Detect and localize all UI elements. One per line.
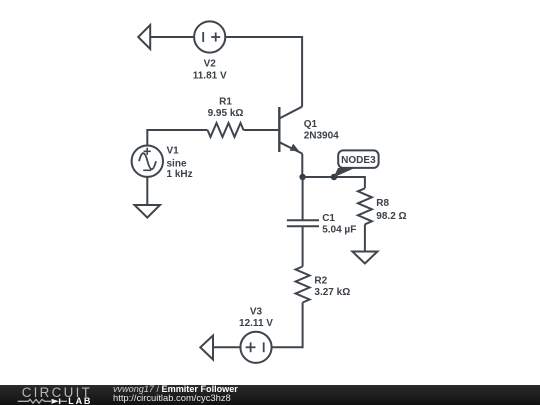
NODE3 flag box (338, 150, 378, 168)
resistor R8 (358, 188, 372, 224)
svg-text:12.11 V: 12.11 V (239, 318, 273, 329)
ground flag (left-pointing) at V3 left terminal (200, 336, 213, 360)
svg-text:R8: R8 (376, 198, 389, 209)
svg-text:NODE3: NODE3 (341, 155, 376, 166)
wire from V3 to left flag (213, 346, 240, 348)
voltage source V3 (240, 332, 271, 363)
svg-text:V2: V2 (204, 59, 217, 70)
node junction dot at emitter branch (299, 174, 305, 180)
ground below V1 (135, 205, 161, 218)
wire node to R8 branch (303, 177, 365, 188)
svg-text:R2: R2 (314, 276, 327, 287)
voltage source V2 (194, 21, 225, 52)
svg-text:5.04 µF: 5.04 µF (322, 225, 356, 236)
wire from R8 to ground (364, 224, 366, 251)
wire from Q1 emitter down to node (301, 154, 303, 177)
voltage source V1 (132, 146, 163, 177)
svg-text:98.2 Ω: 98.2 Ω (376, 211, 406, 222)
transistor Q1 2N3904 (279, 107, 302, 154)
svg-text:2N3904: 2N3904 (304, 131, 339, 142)
wire from left flag to V2 (150, 36, 194, 38)
NODE3 flag pointer (334, 168, 356, 178)
node dot under NODE3 flag (331, 174, 337, 180)
wire from C1 to R2 (302, 226, 304, 266)
CircuitLab logo (0, 385, 110, 405)
svg-text:3.27 kΩ: 3.27 kΩ (314, 287, 350, 298)
wire from V2 to collector rail corner (225, 37, 302, 107)
label V1 sine 1 kHz (167, 146, 193, 181)
label R1 9.95 kOhm (208, 97, 244, 120)
svg-text:R1: R1 (219, 97, 232, 108)
svg-text:sine: sine (167, 159, 187, 170)
label R2 3.27 kOhm (314, 276, 350, 299)
ground below R8 (352, 252, 377, 264)
wire from R2 down and left to V3 (272, 303, 303, 348)
capacitor C1 (287, 220, 319, 226)
svg-text:9.95 kΩ: 9.95 kΩ (208, 108, 244, 119)
svg-text:1 kHz: 1 kHz (167, 169, 193, 180)
footer credit text (113, 385, 238, 403)
label Q1 2N3904 (304, 119, 339, 142)
svg-text:V3: V3 (250, 307, 263, 318)
svg-text:C1: C1 (322, 213, 335, 224)
wire from V1 top up and right to R1 (147, 130, 207, 146)
wire from node down to C1 (302, 177, 304, 220)
svg-text:11.81 V: 11.81 V (193, 71, 227, 82)
label C1 5.04 uF (322, 213, 356, 236)
label R8 98.2 Ohm (376, 198, 406, 222)
resistor R2 (296, 267, 310, 303)
wire from V1 bottom to ground (146, 177, 148, 205)
svg-text:V1: V1 (167, 146, 180, 157)
svg-text:Q1: Q1 (304, 119, 318, 130)
footer bar (0, 385, 540, 405)
resistor R1 (208, 123, 244, 137)
label V3 12.11 V (239, 307, 273, 330)
label V2 11.81 V (193, 59, 227, 82)
wire from R1 to Q1 base (244, 129, 280, 131)
svg-text:LAB: LAB (68, 396, 92, 405)
label NODE3 (341, 155, 376, 166)
ground flag (left-pointing) at V2 negative terminal (138, 25, 150, 49)
